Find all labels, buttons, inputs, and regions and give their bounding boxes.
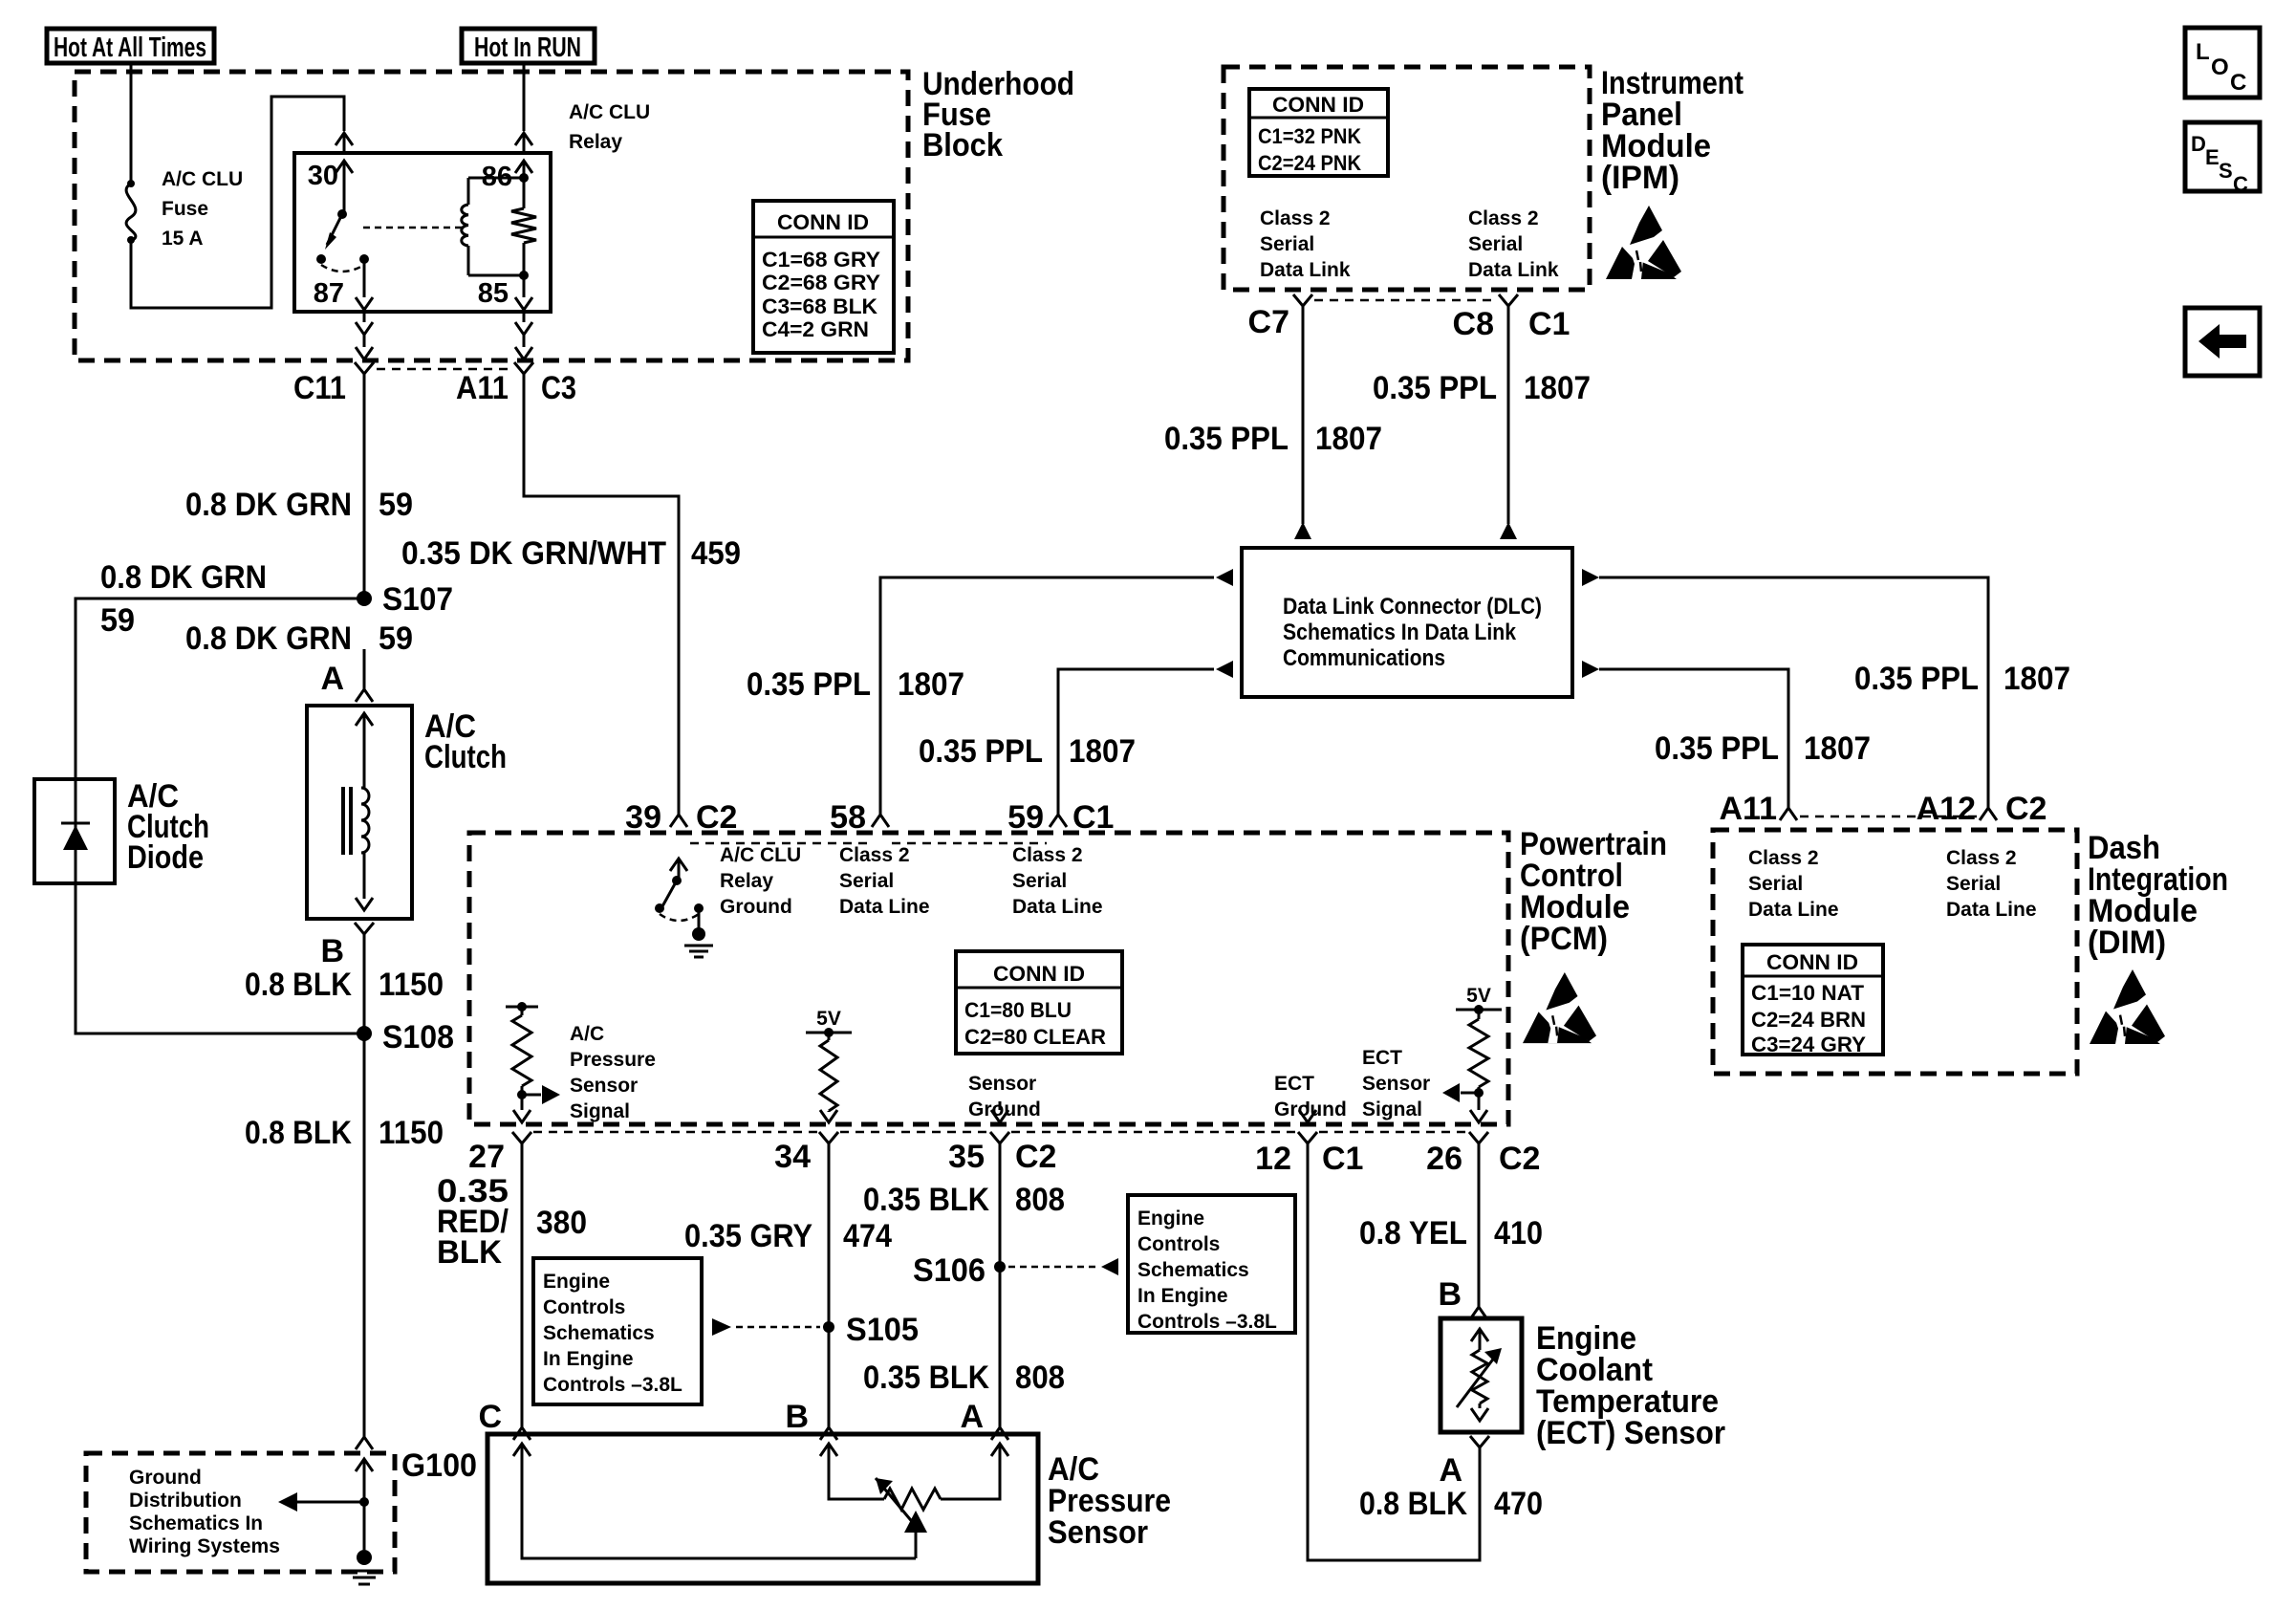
svg-text:A12: A12 [1917,791,1976,827]
svg-text:Controls: Controls [1137,1233,1220,1255]
svg-text:Class 2: Class 2 [1012,844,1083,866]
connector A11 fork DIM [1780,808,1797,820]
svg-text:Serial: Serial [1260,233,1314,255]
svg-text:58: 58 [830,799,866,836]
label A/C CLU Fuse 15 A [162,168,243,250]
wire into ground box [356,1459,373,1550]
ECT thermistor element [1457,1329,1502,1421]
svg-text:39: 39 [625,799,661,836]
wire DLC to DIM A11 [1582,661,1788,808]
svg-text:15 A: 15 A [162,228,204,250]
svg-text:87: 87 [314,278,344,309]
svg-text:C7: C7 [1248,304,1289,340]
label Dash Integration Module (DIM) [2088,830,2228,961]
label Powertrain Control Module (PCM) [1520,826,1667,957]
svg-text:Clutch: Clutch [424,739,507,775]
svg-text:C2: C2 [1499,1141,1540,1177]
label 0.8 DK GRN 59 (upper) [185,487,413,523]
label A/C Pressure Sensor [1048,1451,1171,1551]
svg-text:CONN ID: CONN ID [1766,950,1858,974]
svg-text:A11: A11 [1720,791,1778,827]
label pin C sensor [478,1399,502,1435]
label Class 2 Serial Data Line (pin 58) [839,844,930,918]
sensor pin C interior wire [513,1444,916,1558]
svg-text:Sensor: Sensor [1048,1514,1148,1551]
pin 86 entry arrow [515,133,532,178]
svg-text:Schematics In Data Link: Schematics In Data Link [1283,620,1517,645]
A/C clutch plates [343,787,351,855]
svg-text:B: B [1438,1276,1462,1313]
pin 59 fork [1050,815,1067,827]
svg-text:C2=24 BRN: C2=24 BRN [1751,1008,1866,1032]
label 35 C2 [948,1139,1056,1175]
svg-text:12: 12 [1255,1141,1291,1177]
connector mating line C7-C8 [1314,299,1497,302]
svg-text:Relay: Relay [569,131,622,153]
svg-text:S: S [2219,159,2233,183]
svg-text:470: 470 [1494,1486,1543,1522]
svg-text:Data Line: Data Line [839,896,930,918]
label C7 [1248,304,1289,340]
label 0.35 PPL 1807 (C8) [1373,370,1591,406]
svg-text:C2: C2 [696,799,737,836]
pin 34 fork [819,1132,838,1143]
svg-text:Data Link Connector (DLC): Data Link Connector (DLC) [1283,594,1542,620]
label C11 [293,370,346,406]
label 0.8 DK GRN 59 (lower) [185,620,413,657]
svg-text:A: A [960,1399,984,1435]
wire ECT resistor to pin 26 [1470,1093,1487,1122]
svg-text:C: C [2233,172,2248,196]
svg-text:1807: 1807 [1315,421,1382,457]
svg-text:85: 85 [478,278,509,309]
svg-text:Wiring Systems: Wiring Systems [129,1535,280,1557]
PCM CONN ID table [956,951,1122,1054]
svg-text:C1: C1 [1528,306,1570,342]
wire 808 pin 35 to pressure sensor A [991,1143,1008,1440]
connector dashes PCM top [690,842,1047,845]
IPM CONN ID table [1249,89,1388,176]
svg-text:ECT: ECT [1362,1047,1402,1069]
A/C clutch coil element [356,713,373,910]
svg-text:1807: 1807 [1524,370,1591,406]
label pin B clutch [320,933,344,969]
svg-text:1807: 1807 [898,666,964,703]
sensor pin A interior wire [941,1444,1008,1499]
pin 30 label [308,161,338,191]
label 0.8 YEL 410 [1359,1215,1543,1251]
pin 87 label [314,278,344,309]
svg-text:Distribution: Distribution [129,1490,242,1512]
connector dashes PCM bottom [533,1131,1467,1134]
label 0.8 BLK 1150 (upper) [245,967,444,1003]
DLC reference box [1242,548,1572,697]
svg-text:O: O [2211,54,2229,80]
wire 1807 pin 59 to DLC [1058,661,1233,815]
label 0.35 RED/BLK 380 [437,1173,587,1271]
svg-text:D: D [2191,132,2206,156]
label 0.35 DK GRN/WHT 459 [401,535,741,572]
wire 59 C11 to S107 [363,374,366,598]
svg-text:Block: Block [922,127,1003,163]
ground G100 symbol [347,1550,381,1584]
label A11 DIM [1720,791,1778,827]
svg-text:0.35 PPL: 0.35 PPL [919,733,1043,770]
svg-text:Relay: Relay [720,870,773,892]
svg-text:Data Line: Data Line [1012,896,1103,918]
svg-text:35: 35 [948,1139,985,1175]
ESD symbol DIM [2090,969,2165,1044]
underhood fuse block boundary [75,72,908,360]
A/C clutch box [307,706,412,919]
wire 1807 C7 to DLC [1294,306,1311,539]
label 58 [830,799,866,836]
pin 26 fork [1469,1132,1488,1143]
pin 35 fork [990,1132,1009,1143]
ESD symbol IPM [1606,206,1681,279]
svg-text:A/C: A/C [570,1023,604,1045]
svg-text:C1=10 NAT: C1=10 NAT [1751,981,1865,1005]
svg-text:Sensor: Sensor [1362,1073,1430,1095]
svg-text:Communications: Communications [1283,645,1445,671]
DIM boundary [1713,830,2077,1074]
svg-text:30: 30 [308,161,338,191]
svg-text:410: 410 [1494,1215,1543,1251]
svg-text:26: 26 [1426,1141,1462,1177]
wire 59 S107 branch to diode [76,598,364,779]
svg-text:Hot At All Times: Hot At All Times [54,33,206,63]
svg-text:0.8 YEL: 0.8 YEL [1359,1215,1467,1251]
svg-text:Data Link: Data Link [1468,259,1559,281]
wire 470 ECT A to PCM pin 12 [1308,1143,1480,1560]
svg-text:380: 380 [536,1205,587,1241]
svg-text:5V: 5V [816,1008,841,1030]
svg-text:C1: C1 [1322,1141,1363,1177]
svg-text:0.35 PPL: 0.35 PPL [1655,730,1779,767]
svg-text:(DIM): (DIM) [2088,925,2166,961]
pin 86 label [482,162,512,192]
svg-text:1150: 1150 [379,1115,444,1151]
svg-text:5V: 5V [1466,985,1491,1007]
splice S106 [913,1252,1006,1289]
pin 85 label [478,278,509,309]
svg-text:Ground: Ground [129,1467,202,1489]
wire DLC to DIM C2 [1582,569,1988,808]
pin 39 fork at PCM edge [670,815,687,827]
svg-text:C2: C2 [2005,791,2047,827]
svg-text:C3: C3 [541,370,576,406]
clutch pin B fork [355,923,374,934]
A/C pressure sensor box [487,1434,1038,1583]
svg-text:Serial: Serial [1946,873,2001,895]
svg-text:Schematics In: Schematics In [129,1512,263,1534]
svg-text:B: B [785,1399,809,1435]
wire coil to pin 85 [515,275,532,312]
wire 1807 pin 58 to DLC [880,569,1233,815]
svg-text:(PCM): (PCM) [1520,921,1608,957]
svg-text:(IPM): (IPM) [1601,160,1679,196]
pin 27 fork [512,1132,531,1143]
sensor pin B interior wire [820,1444,884,1499]
label A/C Pressure Sensor Signal [570,1023,656,1122]
relay switch travel arc [321,265,364,272]
wire fuse to relay pin 30 [131,97,344,308]
svg-text:Class 2: Class 2 [1946,847,2017,869]
label 0.35 PPL 1807 (pin 58) [747,666,964,703]
svg-text:S105: S105 [846,1312,919,1348]
svg-text:A11: A11 [456,370,509,406]
label 0.35 BLK 808 (upper) [863,1182,1065,1218]
label Class 2 Serial Data Line (pin 59) [1012,844,1103,918]
svg-text:Serial: Serial [1012,870,1067,892]
svg-text:C1=80 BLU: C1=80 BLU [964,998,1072,1022]
svg-text:C1: C1 [1072,799,1114,836]
svg-text:Diode: Diode [127,839,204,876]
label 0.35 GRY 474 [684,1218,892,1254]
pin 12 fork [1298,1132,1317,1143]
svg-text:808: 808 [1015,1360,1065,1396]
label 27 [468,1139,505,1175]
label A/C CLU Relay Ground [720,844,801,918]
wire 410 pin 26 to ECT sensor B [1470,1143,1487,1319]
ECT sensor box [1440,1318,1522,1432]
wire 1150 clutch to S108 [363,934,366,1033]
icon LOC [2185,28,2260,98]
label Instrument Panel Module (IPM) [1601,65,1744,196]
svg-text:C: C [2230,70,2246,96]
svg-text:59: 59 [1007,799,1044,836]
svg-text:808: 808 [1015,1182,1065,1218]
wire 1150 S108 to G100 [356,1033,373,1449]
label pin A ECT [1439,1452,1462,1489]
node Hot At All Times [47,29,214,63]
relay resistor R1 [511,178,536,275]
label Class 2 Serial Data Link (C8) [1468,207,1559,281]
svg-text:0.8 DK GRN: 0.8 DK GRN [100,559,267,596]
engine controls reference box 2 [1128,1195,1295,1333]
svg-text:Controls –3.8L: Controls –3.8L [543,1374,682,1396]
svg-text:Controls: Controls [543,1296,625,1318]
ECT sensor signal branch arrow [1442,1083,1479,1102]
svg-text:A/C CLU: A/C CLU [569,101,650,123]
dashed reference line to S105 [712,1318,820,1336]
A/C pressure sensor signal branch arrow [522,1085,560,1104]
connector C7 fork [1293,294,1312,306]
svg-text:Serial: Serial [1468,233,1523,255]
svg-text:0.35 GRY: 0.35 GRY [684,1218,812,1254]
connector mating line A11-A12 [1800,816,1977,818]
pin 58 fork [872,815,889,827]
svg-text:0.35 PPL: 0.35 PPL [1373,370,1497,406]
label Class 2 Serial Data Link (C7) [1260,207,1351,281]
label Class 2 Serial Data Line (DIM A11) [1748,847,1839,921]
label A11 [456,370,509,406]
A/C pressure sensor signal resistor R2 [506,1002,538,1099]
svg-text:C3=24 GRY: C3=24 GRY [1751,1033,1866,1056]
label G100 [401,1447,477,1484]
diode D1 [61,779,90,883]
label Sensor Ground [968,1073,1041,1120]
svg-text:0.35 PPL: 0.35 PPL [747,666,871,703]
label 0.35 PPL 1807 (C7) [1164,421,1382,457]
sensor potentiometer wiper [876,1478,927,1558]
label pin B ECT [1438,1276,1462,1313]
label Engine Coolant Temperature (ECT) Sensor [1536,1320,1725,1451]
svg-text:Controls –3.8L: Controls –3.8L [1137,1311,1277,1333]
label ECT Sensor Signal [1362,1047,1430,1120]
label A/C Clutch Diode [127,778,209,876]
ground distribution boundary [86,1453,395,1572]
wire contact to pin 87 [356,259,373,312]
svg-text:S108: S108 [382,1019,454,1055]
svg-text:C11: C11 [293,370,346,406]
label A/C Clutch [424,708,507,775]
label pin A clutch [320,661,344,697]
A/C CLU relay ground switch [655,859,713,957]
label 0.8 DK GRN 59 (branch) [100,559,267,639]
svg-text:Data Line: Data Line [1748,899,1839,921]
svg-text:Signal: Signal [1362,1099,1422,1120]
label pin B sensor [785,1399,809,1435]
label pin A sensor [960,1399,984,1435]
ground branch arrow [278,1492,369,1512]
svg-text:1150: 1150 [379,967,444,1003]
svg-text:1807: 1807 [1804,730,1871,767]
label 12 C1 [1255,1141,1363,1177]
svg-text:0.8 DK GRN: 0.8 DK GRN [185,487,352,523]
svg-text:34: 34 [774,1139,811,1175]
label 34 [774,1139,811,1175]
pin 35 interior stub [991,1101,1008,1122]
wire 459 C3 to PCM pin 39 [524,374,679,815]
label C8 C1 [1453,306,1570,342]
pin 30 entry arrow [336,133,353,212]
svg-text:474: 474 [843,1218,892,1254]
connector A12/C2 fork DIM [1980,808,1997,820]
svg-text:ECT: ECT [1274,1073,1314,1095]
splice S105 [823,1312,919,1348]
svg-text:Engine: Engine [543,1271,610,1293]
label Ground Distribution Schematics In Wiring Systems [129,1467,280,1557]
wire 474 pin 34 to pressure sensor B [820,1143,837,1440]
svg-text:0.35 BLK: 0.35 BLK [863,1182,989,1218]
svg-text:Serial: Serial [1748,873,1803,895]
svg-text:G100: G100 [401,1447,477,1484]
wire 380 pin 27 to pressure sensor C [513,1143,531,1440]
node relay coil bottom [468,271,529,280]
label C3 [541,370,576,406]
engine controls reference box 1 [533,1258,702,1404]
pin 12 interior stub [1299,1101,1316,1122]
dashed reference line from S106 [1008,1258,1118,1275]
ECT 5V reference resistor R4 [1456,985,1502,1098]
svg-text:0.8 BLK: 0.8 BLK [1359,1486,1467,1522]
svg-text:C1=68 GRY: C1=68 GRY [762,248,880,272]
svg-text:C1=32 PNK: C1=32 PNK [1258,124,1361,148]
label A12 C2 DIM [1917,791,2047,827]
label Underhood Fuse Block [922,66,1074,163]
svg-text:A/C CLU: A/C CLU [720,844,801,866]
svg-text:27: 27 [468,1139,505,1175]
svg-text:Data Link: Data Link [1260,259,1351,281]
svg-text:S106: S106 [913,1252,986,1289]
label Class 2 Serial Data Line (DIM A12) [1946,847,2037,921]
svg-text:59: 59 [379,620,413,657]
svg-text:Fuse: Fuse [162,198,208,220]
label 26 C2 [1426,1141,1540,1177]
relay coil L1 [462,178,468,275]
ECT pin A fork [1470,1436,1489,1447]
svg-text:CONN ID: CONN ID [993,962,1085,986]
svg-text:Class 2: Class 2 [1260,207,1331,229]
svg-text:0.35 PPL: 0.35 PPL [1164,421,1289,457]
svg-text:C2: C2 [1015,1139,1056,1175]
svg-text:Serial: Serial [839,870,894,892]
label A/C CLU Relay [569,101,650,153]
label 0.8 BLK 470 [1359,1486,1543,1522]
svg-text:C2=80 CLEAR: C2=80 CLEAR [964,1025,1106,1049]
label 39 C2 [625,799,737,836]
connector mating line C11-A11 [377,368,513,371]
relay switch pivot [337,209,347,219]
relay contact 87a [316,254,326,264]
svg-text:E: E [2205,145,2220,169]
splice S108 [357,1019,454,1055]
connector C11 fork [355,362,374,374]
label 0.8 BLK 1150 (lower) [245,1115,444,1151]
svg-text:Schematics: Schematics [1137,1259,1249,1281]
PCM boundary [469,833,1508,1124]
relay switch arm [325,214,342,250]
svg-text:Class 2: Class 2 [839,844,910,866]
svg-text:S107: S107 [382,581,453,618]
fuse F1 A/C CLU Fuse 15 A [126,180,136,244]
svg-text:0.35 DK GRN/WHT: 0.35 DK GRN/WHT [401,535,666,572]
svg-text:Signal: Signal [570,1100,630,1122]
svg-text:In Engine: In Engine [543,1348,634,1370]
svg-text:In Engine: In Engine [1137,1285,1228,1307]
wire pin 87 to connector C11 [356,312,373,359]
wire from Hot At All Times to fuse [130,63,133,181]
splice S107 [357,581,453,618]
svg-text:L: L [2196,39,2210,65]
label 59 C1 [1007,799,1114,836]
fuse block CONN ID table [753,201,894,353]
svg-text:1807: 1807 [1069,733,1136,770]
svg-text:459: 459 [691,535,741,572]
IPM boundary [1224,67,1590,290]
svg-text:C2=24 PNK: C2=24 PNK [1258,151,1361,175]
connector A11/C3 fork [514,362,533,374]
icon back arrow [2185,308,2260,376]
svg-text:C2=68 GRY: C2=68 GRY [762,271,880,294]
label ECT Ground [1274,1073,1347,1120]
svg-text:0.35 PPL: 0.35 PPL [1854,661,1979,697]
svg-text:0.8 BLK: 0.8 BLK [245,967,352,1003]
label 0.35 PPL 1807 (pin 59) [919,733,1136,770]
svg-text:59: 59 [100,602,135,639]
svg-text:Engine: Engine [1137,1207,1204,1229]
svg-text:0.8 DK GRN: 0.8 DK GRN [185,620,352,657]
svg-text:A/C CLU: A/C CLU [162,168,243,190]
svg-text:Class 2: Class 2 [1748,847,1819,869]
wire diode to S108 [76,883,364,1033]
svg-text:A: A [320,661,344,697]
svg-text:(ECT) Sensor: (ECT) Sensor [1536,1415,1725,1451]
svg-text:1807: 1807 [2004,661,2070,697]
sensor potentiometer resistor R5 [884,1489,941,1510]
label 0.35 PPL 1807 (DIM C2) [1854,661,2070,697]
